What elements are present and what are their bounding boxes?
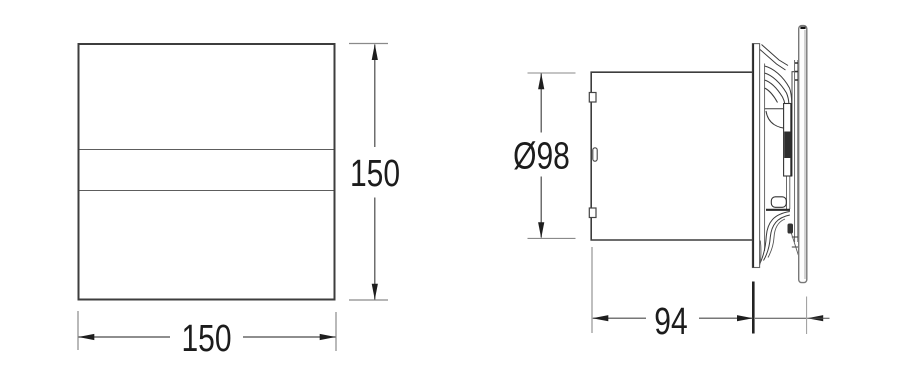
dim O98: dimension line lower segment bbox=[540, 177, 542, 238]
bell curve lower outer bbox=[760, 212, 790, 264]
dim 150 bottom: left extension line bbox=[77, 311, 79, 350]
svg-text:Ø98: Ø98 bbox=[513, 135, 570, 177]
dim 150 right: dimension line lower segment bbox=[374, 198, 376, 300]
side view: lower dark knob bbox=[788, 224, 794, 234]
motor top bracket vertical bbox=[791, 72, 793, 105]
side view: motor housing outline bbox=[784, 104, 792, 177]
side view: oval slot on duct wall bbox=[593, 148, 597, 161]
motor bracket verticals bbox=[795, 60, 798, 242]
bell band curve 2 bbox=[765, 73, 789, 104]
dim 94: arrow left bbox=[592, 315, 608, 321]
bell band curve 4 bbox=[765, 88, 778, 103]
dim O98: arrow down bbox=[538, 222, 544, 238]
side view: motor dark body bbox=[784, 132, 791, 159]
front cover groove line lower bbox=[80, 190, 334, 192]
dim 150 bottom: dimension line left segment bbox=[79, 336, 171, 338]
dim 150 right: dimension line upper segment bbox=[374, 45, 376, 148]
dim 94: left extension line bbox=[591, 247, 593, 333]
bell curve lower inner bbox=[764, 215, 790, 261]
front view: fan cover square bbox=[79, 44, 335, 300]
scroll top diagonal 2 bbox=[760, 50, 786, 71]
front cover panel inner edge line bbox=[804, 30, 806, 279]
dim 150 right: arrow up bbox=[372, 44, 378, 60]
motor stem lines bbox=[787, 176, 790, 209]
dim 94: dimension line left segment bbox=[593, 317, 646, 319]
front cover groove line upper bbox=[80, 149, 334, 151]
side view: mounting flange plate bbox=[752, 44, 759, 268]
dim 94: panel thin extension line bbox=[806, 297, 808, 335]
flange bottom flare bbox=[760, 241, 761, 265]
side view: front cover panel bbox=[799, 26, 807, 283]
dim 150 bottom: arrow right bbox=[320, 334, 336, 340]
dim 94: tail line to panel bbox=[755, 317, 806, 319]
svg-text:150: 150 bbox=[181, 318, 231, 360]
front cover panel top dark cap bbox=[800, 27, 805, 29]
bell band curve 1 bbox=[765, 66, 792, 103]
side view: duct body outline bbox=[591, 72, 752, 240]
dim 150 right: arrow down bbox=[372, 284, 378, 300]
svg-text:94: 94 bbox=[654, 301, 687, 343]
dim O98: dimension line upper segment bbox=[540, 74, 542, 133]
side view: lower thick shelf bbox=[766, 209, 790, 211]
side view: fan internals group bbox=[760, 45, 800, 265]
dim 150 right: top tick bbox=[349, 43, 388, 45]
dim O98: bottom tick bbox=[528, 237, 576, 239]
bell horizontal shelf bbox=[765, 108, 790, 110]
dim 94: arrow left at panel bbox=[807, 315, 823, 321]
bell band curve 3 bbox=[765, 80, 785, 104]
side view: upper clip tab on duct bbox=[589, 93, 596, 103]
dim O98: arrow up bbox=[538, 73, 544, 89]
dim 94: flange thick extension line bbox=[752, 282, 755, 334]
svg-text:150: 150 bbox=[350, 153, 400, 195]
side view: lower clip tab on duct bbox=[589, 208, 596, 218]
dim 94: tail after panel arrow bbox=[807, 317, 829, 319]
dim 150 right: bottom tick bbox=[349, 299, 388, 301]
side view: lower mount capsule bbox=[771, 197, 786, 208]
dim 150 bottom: arrow left bbox=[78, 334, 94, 340]
bracket lower connectors bbox=[792, 237, 799, 247]
dim 94: arrow right at flange bbox=[737, 315, 753, 321]
dim 94: dimension line right segment bbox=[699, 317, 753, 319]
bell curve mid bbox=[766, 111, 790, 129]
side view: motor right dark edge bbox=[790, 104, 792, 176]
dim O98: top tick bbox=[528, 72, 576, 74]
motor lower diagonal bbox=[791, 232, 799, 256]
dim 150 bottom: dimension line right segment bbox=[243, 336, 336, 338]
bracket top ticks bbox=[795, 63, 800, 80]
scroll top diagonal 1 bbox=[762, 45, 789, 66]
motor top bracket horizontal bbox=[792, 71, 799, 73]
dim 150 bottom: right extension line bbox=[335, 312, 337, 351]
bell rim vertical bbox=[764, 64, 766, 252]
side view: flange front dark edge bbox=[752, 44, 754, 268]
bell curve lower third bbox=[768, 219, 785, 258]
